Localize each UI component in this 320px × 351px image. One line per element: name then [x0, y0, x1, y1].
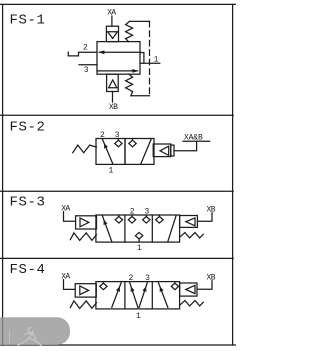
svg-text:XA&B: XA&B	[184, 134, 203, 143]
watermark logo	[18, 327, 42, 346]
pilot box right (valve V4)	[180, 283, 197, 296]
position divider 1	[124, 282, 126, 309]
pilot triangle right	[80, 218, 89, 227]
position divider 1	[124, 215, 126, 242]
valve V3 body	[96, 215, 180, 242]
svg-text:1: 1	[109, 166, 114, 175]
closed port diamond mid box port 2	[128, 215, 135, 223]
return spring right	[180, 233, 204, 238]
watermark left border overlap	[2, 317, 4, 345]
pilot triangle right	[80, 286, 89, 295]
closed port diamond right box	[171, 282, 178, 290]
table right border	[232, 4, 234, 345]
pilot line XA	[64, 280, 76, 290]
port 1 line	[140, 62, 160, 64]
pilot triangle left	[160, 146, 169, 155]
svg-text:1: 1	[154, 56, 159, 65]
svg-text:FS-2: FS-2	[10, 119, 46, 135]
return spring right	[180, 301, 204, 306]
flow path diagonal left box	[102, 139, 113, 164]
svg-text:XA: XA	[61, 272, 70, 281]
valve V4 body	[96, 282, 180, 309]
flow path diagonal right box	[141, 139, 152, 164]
pilot box right (valve V3)	[180, 216, 198, 228]
closed port diamond mid box port 3	[143, 215, 150, 223]
pilot box extra edge	[171, 145, 174, 156]
closed port diamond left box	[115, 139, 122, 147]
closed port diamond right box	[156, 215, 163, 223]
return spring left	[73, 145, 97, 153]
closed port diamond right box	[129, 139, 136, 147]
pilot box right (valve V2)	[153, 144, 171, 157]
pilot line dashed	[149, 21, 151, 95]
table top border	[0, 3, 236, 5]
svg-text:3: 3	[145, 207, 150, 216]
closed port diamond left box	[115, 215, 122, 223]
pilot box top (valve V1)	[106, 26, 118, 41]
pilot triangle down	[108, 32, 118, 39]
flow arrow lower (to port 1)	[97, 70, 138, 72]
svg-text:1: 1	[136, 312, 141, 321]
flow path diagonal right box	[158, 282, 168, 307]
row divider 1	[0, 114, 233, 116]
row divider 3	[0, 257, 233, 259]
pilot label underline	[183, 140, 210, 142]
closed port diamond left box	[100, 282, 107, 290]
port 3 stub	[79, 64, 97, 66]
flow path diagonal left box	[112, 282, 122, 307]
flow path V left arm mid box	[130, 282, 138, 307]
svg-text:XA: XA	[61, 205, 70, 214]
svg-text:FS-4: FS-4	[10, 262, 46, 278]
pilot line XB stem	[112, 92, 114, 103]
pilot box left (valve V3)	[76, 216, 97, 229]
pilot triangle left	[186, 218, 195, 226]
pilot box bottom (valve V1)	[107, 74, 119, 91]
pilot line XB	[197, 213, 212, 222]
svg-text:3: 3	[84, 66, 89, 75]
position divider 2	[151, 282, 153, 309]
valve V2 right position box	[125, 139, 154, 165]
pilot line XA stem	[111, 16, 113, 26]
port 2 line with step	[68, 52, 97, 56]
flow path V right arm mid box	[139, 282, 147, 307]
pilot link bottom	[131, 95, 150, 97]
table left border	[2, 4, 4, 345]
flow path diagonal right box	[168, 216, 176, 242]
port 1 notch	[140, 53, 144, 64]
closed port diamond mid box port 1	[135, 232, 142, 242]
position divider 2	[151, 215, 153, 242]
pilot triangle up	[109, 80, 117, 88]
svg-text:2: 2	[129, 274, 134, 283]
pilot line to XA&B	[174, 141, 197, 151]
watermark faint line	[9, 330, 11, 345]
pilot triangle left	[186, 285, 195, 293]
spring top	[126, 21, 133, 41]
watermark blob	[0, 317, 70, 345]
svg-text:2: 2	[83, 44, 88, 53]
svg-text:3: 3	[145, 274, 150, 283]
table bottom border	[0, 344, 236, 346]
spring bottom	[126, 74, 133, 96]
svg-text:FS-3: FS-3	[10, 194, 46, 210]
flow arrow upper (to port 2)	[99, 51, 140, 53]
svg-text:XB: XB	[207, 206, 216, 215]
valve V2 left position box	[96, 139, 125, 165]
row divider 2	[0, 190, 233, 192]
svg-text:2: 2	[130, 207, 135, 216]
return spring left	[70, 233, 96, 241]
pilot link top	[130, 20, 150, 22]
svg-text:1: 1	[137, 244, 142, 253]
flow path diagonal left box	[102, 216, 112, 242]
svg-text:XB: XB	[109, 103, 118, 112]
svg-text:FS-1: FS-1	[10, 13, 46, 29]
pilot line XA	[64, 212, 76, 222]
svg-text:XB: XB	[207, 274, 216, 283]
pilot line XB	[197, 281, 212, 290]
return spring left	[70, 301, 96, 309]
valve V1 body	[97, 42, 140, 75]
pilot box left (valve V4)	[75, 284, 96, 297]
